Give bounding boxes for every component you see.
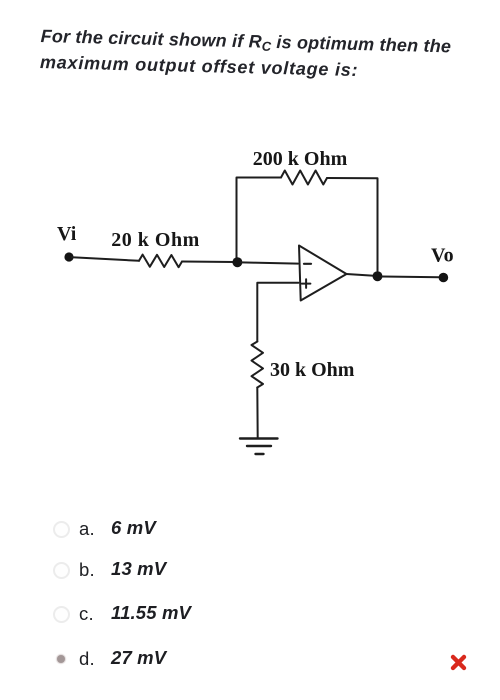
svg-text:30 k Ohm: 30 k Ohm [270, 359, 355, 381]
question title [40, 23, 500, 87]
wire non-inverting input [257, 283, 298, 342]
node Vo terminal dot [439, 273, 449, 283]
wire feedback top-right vertical [327, 178, 378, 271]
option b [0, 559, 500, 583]
op-amp minus sign [304, 263, 311, 265]
wire feedback top-left vertical [237, 178, 282, 263]
ground [240, 437, 278, 439]
wire R1 to inverting node [182, 261, 234, 264]
node output junction [373, 271, 383, 281]
wire output to Vo [382, 276, 440, 279]
resistor R2 200k zigzag [281, 171, 327, 185]
option d (selected) [0, 648, 500, 672]
wire Vi to R1 [72, 257, 139, 261]
option a [0, 518, 500, 542]
wire node to op-amp inverting input [241, 262, 298, 263]
svg-text:200 k Ohm: 200 k Ohm [253, 148, 348, 170]
node junction at inverting input [232, 257, 242, 267]
op-amp plus sign [302, 279, 311, 288]
svg-text:Vo: Vo [431, 245, 454, 267]
resistor R3 30k vertical zigzag [252, 342, 264, 388]
resistor R1 20k zigzag [139, 255, 182, 268]
wire R3 to ground [256, 388, 258, 439]
node Vi dot [64, 252, 73, 261]
svg-text:Vi: Vi [57, 223, 77, 245]
wire op-amp output [347, 274, 375, 276]
incorrect mark red X [448, 652, 470, 674]
option c [0, 603, 500, 627]
op-amp U1 triangle [299, 246, 347, 301]
svg-text:20 k Ohm: 20 k Ohm [111, 229, 199, 251]
